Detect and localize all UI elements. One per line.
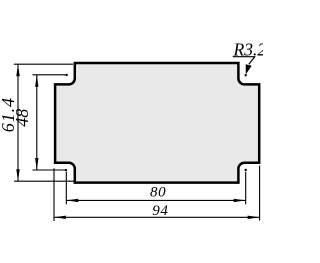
arrowhead 80 right [234, 199, 246, 202]
dimension line 48 [36, 75, 38, 170]
arrowhead 48 up [35, 75, 38, 87]
svg-text:48: 48 [12, 109, 32, 127]
arrowhead 48 down [35, 158, 38, 170]
tangent dot bottom-right [245, 169, 247, 171]
extension line top for 61.4 [14, 63, 73, 65]
arrowhead 61.4 down [16, 169, 19, 181]
tangent dot top-right [245, 74, 247, 76]
svg-text:80: 80 [150, 185, 166, 201]
extension line top for 48 [33, 74, 66, 76]
arrowhead 80 left [66, 199, 78, 202]
extension line right for 80 [245, 172, 247, 205]
leader line R3.2 [249, 57, 255, 65]
arrowhead 61.4 up [16, 64, 19, 76]
svg-text:94: 94 [152, 203, 168, 219]
extension line left for 94 [53, 168, 55, 221]
arrowhead 94 left [54, 216, 66, 219]
leader underline R3.2 [233, 56, 256, 58]
extension line bottom for 48 [33, 169, 65, 171]
dimension line 61.4 [17, 64, 19, 181]
dimension line 94 [54, 216, 260, 218]
plate outline (cross-shaped part, filleted notch corners R3.2) [55, 63, 259, 183]
arrowhead 94 right [248, 216, 260, 219]
dimension line 80 [66, 199, 245, 201]
tangent dot bottom-left [65, 169, 67, 171]
tangent dot top-left [65, 74, 67, 76]
extension line left for 80 [65, 172, 67, 205]
extension line right for 94 [259, 166, 261, 221]
extension line bottom for 61.4 [14, 180, 74, 182]
leader arrowhead R3.2 [246, 64, 252, 74]
